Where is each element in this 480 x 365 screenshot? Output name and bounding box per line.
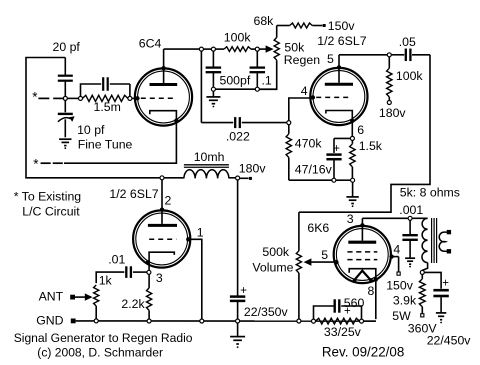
6K6 triangle edge dots	[353, 279, 357, 283]
ground below 1.5k	[352, 182, 354, 196]
node .1 bottom	[255, 87, 259, 91]
6K6 plate pin dot	[360, 223, 364, 227]
capacitor 47/16v electrolytic	[326, 153, 341, 156]
potentiometer 50k regen	[276, 26, 278, 38]
resistor 3.9k 5W	[421, 274, 423, 279]
wire 68k feed	[277, 25, 290, 27]
svg-text:4: 4	[301, 84, 308, 98]
node regen pot wiper feed	[255, 47, 259, 51]
capacitor 500pf	[212, 51, 214, 67]
capacitor 22/350v electrolytic	[230, 295, 245, 298]
svg-text:3: 3	[347, 212, 354, 226]
svg-text:3: 3	[156, 271, 163, 285]
6K6 plate	[348, 241, 376, 244]
node 500pf bottom	[211, 87, 215, 91]
svg-text:*: *	[33, 156, 39, 171]
svg-text:180v: 180v	[379, 106, 407, 120]
svg-text:1/2 6SL7: 1/2 6SL7	[109, 187, 158, 201]
svg-text:8: 8	[368, 284, 375, 298]
tube 6K6 envelope	[334, 226, 391, 283]
svg-text:10 pf: 10 pf	[77, 123, 105, 137]
6SL7a grid entry dot	[311, 95, 315, 99]
6SL7b grid exit dot	[186, 237, 190, 241]
node cathode RC left	[312, 319, 316, 323]
svg-text:22/350v: 22/350v	[244, 305, 289, 319]
svg-text:ANT: ANT	[39, 290, 64, 304]
wire pin6 to 47/16v	[334, 137, 350, 139]
svg-text:.001: .001	[399, 203, 423, 217]
svg-text:* To Existing: * To Existing	[14, 190, 82, 204]
svg-text:6K6: 6K6	[307, 221, 329, 235]
svg-text:+: +	[344, 305, 351, 317]
svg-text:6: 6	[357, 123, 364, 137]
svg-text:150v: 150v	[328, 19, 356, 33]
node plate rail left	[199, 47, 203, 51]
ground below 10pf	[59, 138, 71, 140]
svg-text:2.2k: 2.2k	[121, 297, 145, 311]
wire ground rail	[76, 320, 376, 322]
svg-text:L/C Circuit: L/C Circuit	[22, 205, 80, 219]
wire dashed to existing L/C (top)	[38, 97, 49, 99]
svg-text:GND: GND	[36, 313, 63, 327]
svg-text:3.9k: 3.9k	[393, 294, 417, 308]
node 1.5k bottom	[351, 178, 355, 182]
svg-text:(c) 2008, D. Schmarder: (c) 2008, D. Schmarder	[37, 345, 163, 359]
svg-text:Volume: Volume	[252, 261, 293, 275]
svg-text:1: 1	[197, 225, 204, 239]
6K6 cathode	[349, 269, 376, 319]
svg-text:500k: 500k	[262, 245, 290, 259]
node pin1 bottom	[200, 319, 204, 323]
svg-text:Regen: Regen	[284, 53, 320, 67]
capacitor .1	[256, 51, 258, 67]
node cathode RC right	[360, 319, 364, 323]
wire node C to 6C4 grid	[132, 97, 138, 99]
6K6 cathode triangle	[354, 271, 371, 281]
node 47/16v bottom	[332, 178, 336, 182]
ground below .001	[405, 257, 415, 259]
node cathode/.01 junction	[147, 270, 151, 274]
wiper arrow into 1k	[75, 296, 86, 298]
node 500pf top	[211, 47, 215, 51]
svg-text:.01: .01	[108, 252, 125, 266]
svg-text:+: +	[442, 277, 449, 289]
6K6 screen wire pin4	[392, 256, 399, 258]
transformer T1 primary	[422, 218, 428, 262]
svg-text:22/450v: 22/450v	[427, 334, 472, 348]
wiper arrow into 500k	[311, 261, 336, 263]
speaker terminal top	[447, 230, 451, 234]
6SL7a cathode edge dot	[350, 119, 354, 123]
tube 6SL7a envelope	[310, 68, 367, 125]
node B grid network left	[79, 96, 83, 100]
6C4 grid entry dot	[135, 96, 139, 100]
node C grid node at 6C4	[128, 96, 132, 100]
svg-text:500pf: 500pf	[220, 73, 251, 87]
wire to 22/450v	[424, 272, 441, 288]
wire audio rail right side	[299, 55, 430, 212]
svg-text:Rev. 09/22/08: Rev. 09/22/08	[322, 345, 404, 360]
6C4 cathode	[64, 111, 176, 164]
svg-text:100k: 100k	[224, 30, 252, 44]
svg-text:2: 2	[165, 193, 172, 207]
wire node A to node B	[67, 97, 78, 99]
6SL7a grid dashed line	[316, 96, 351, 98]
6C4 plate	[150, 83, 178, 86]
resistor 100k (plate filter)	[224, 47, 251, 52]
6C4 cathode edge dot	[174, 118, 178, 122]
resistor 100k (dropper)	[388, 57, 390, 68]
svg-text:1.5m: 1.5m	[94, 100, 121, 114]
resistor grid leak 1.5m	[83, 95, 128, 101]
node 2.2k bottom	[147, 319, 151, 323]
6K6 grid entry dot	[334, 260, 338, 264]
wire to 100k	[215, 48, 224, 50]
svg-text:1k: 1k	[99, 274, 113, 288]
node B+ cap bottom	[236, 319, 240, 323]
6SL7b grid dashed line	[149, 238, 176, 240]
svg-text:180v: 180v	[239, 162, 267, 176]
svg-text:470k: 470k	[295, 137, 323, 151]
svg-text:150v: 150v	[386, 279, 414, 293]
capacitor 22/450v electrolytic	[433, 289, 448, 292]
wire 470k bottom rail	[289, 179, 332, 181]
node .05 junction	[387, 53, 391, 57]
terminal 150v screen	[397, 272, 400, 275]
resistor 33-25v cathode	[316, 318, 360, 324]
potentiometer 500k volume	[298, 212, 300, 251]
node B+ input junction	[420, 270, 424, 274]
terminal 150v supply	[323, 24, 326, 27]
6SL7a cathode	[326, 111, 352, 137]
svg-text:5: 5	[327, 52, 334, 66]
terminal 360V input	[421, 314, 424, 317]
svg-text:5k: 8 ohms: 5k: 8 ohms	[400, 186, 460, 200]
6SL7b cathode	[149, 252, 174, 270]
node plate/choke junction	[160, 176, 164, 180]
resistor 1.5k	[351, 140, 353, 143]
wire 10mh left	[164, 177, 184, 179]
transformer T1 core	[431, 218, 433, 263]
6SL7a plate	[325, 83, 353, 86]
node 1k bottom	[94, 319, 98, 323]
node grid junction 6SL7a	[287, 121, 291, 125]
node volume bottom	[297, 319, 301, 323]
wire pin8 elbow	[364, 320, 376, 322]
svg-text:.05: .05	[399, 35, 416, 49]
potentiometer 1k antenna	[94, 285, 99, 306]
svg-text:5: 5	[321, 248, 328, 262]
svg-text:*: *	[32, 90, 38, 105]
wire B+ down to 22/350v	[237, 180, 239, 296]
wire 100k to node	[251, 48, 255, 50]
6K6 screen edge dot	[389, 254, 393, 258]
wire plate node down	[200, 51, 202, 123]
wire 560 left lead	[314, 306, 334, 319]
6C4 plate pin dot	[161, 66, 165, 70]
svg-text:68k: 68k	[254, 14, 275, 28]
6SL7a plate pin dot	[337, 65, 341, 69]
node 180v feed	[236, 176, 240, 180]
speaker terminal bottom	[447, 249, 451, 253]
wire cap ground rail	[215, 88, 255, 90]
svg-text:+: +	[333, 143, 340, 155]
wire dashed cathode return to L/C	[41, 162, 51, 164]
6SL7b cathode edge dot	[146, 260, 150, 264]
transformer T1 secondary	[439, 232, 447, 251]
variable capacitor 10pf fine tune	[64, 100, 66, 112]
capacitor .022	[234, 117, 236, 128]
svg-text:6C4: 6C4	[139, 37, 162, 51]
svg-text:.1: .1	[262, 73, 272, 87]
node pin6 cathode	[350, 136, 354, 140]
wire tank top-left L (20pf top to lower run)	[26, 58, 160, 178]
node .001 top	[408, 216, 412, 220]
capacitor 560-bypass right lead	[341, 306, 361, 319]
wire primary bottom	[422, 263, 427, 271]
wire .01 left feed	[96, 272, 124, 283]
capacitor .05	[391, 54, 404, 56]
svg-text:+: +	[240, 285, 247, 297]
wire 6K6 plate to output	[362, 217, 408, 219]
wire 6C4 plate rail	[164, 48, 200, 50]
svg-text:33/25v: 33/25v	[324, 325, 362, 339]
wire choke right	[229, 177, 236, 179]
tube 6C4 envelope	[135, 68, 192, 125]
tube 6SL7b envelope	[133, 210, 190, 267]
ground below 22/450v	[436, 312, 446, 314]
node A grid-tank junction	[63, 96, 67, 100]
ground below 500pf rail	[212, 91, 214, 96]
svg-text:1/2 6SL7: 1/2 6SL7	[317, 34, 366, 48]
wire 68k to 150v terminal	[312, 25, 322, 27]
capacitor .001	[409, 220, 411, 234]
resistor 470k	[288, 125, 290, 134]
wiper arrow into 50k pot	[259, 48, 266, 50]
6SL7b plate	[148, 224, 177, 227]
terminal 180v supply	[249, 177, 252, 180]
svg-text:.022: .022	[226, 129, 250, 143]
wire to 180v terminal	[240, 177, 249, 179]
svg-text:100k: 100k	[396, 69, 424, 83]
6C4 grid dashed line	[141, 97, 176, 99]
svg-text:Signal Generator to Regen Radi: Signal Generator to Regen Radio	[14, 331, 193, 345]
resistor 68k	[290, 23, 313, 28]
wire grid junction to 6SL7a pin4	[289, 98, 311, 121]
inductor 10mh	[184, 170, 229, 179]
capacitor C 20pf	[64, 58, 66, 76]
capacitor grid coupling	[102, 77, 104, 91]
6K6 grid dashed rows	[347, 251, 377, 253]
svg-text:10mh: 10mh	[194, 150, 225, 164]
terminal GND	[71, 319, 76, 324]
capacitor 560 bypass	[334, 299, 336, 312]
terminal ANT	[70, 295, 75, 300]
resistor 2.2k	[148, 274, 150, 288]
svg-text:20 pf: 20 pf	[53, 40, 81, 54]
svg-text:47/16v: 47/16v	[295, 163, 333, 177]
wire grid cap top path	[81, 84, 102, 97]
ground main (below rail)	[237, 323, 239, 336]
capacitor .01	[125, 266, 127, 278]
6K6 pin8 edge dot	[374, 277, 378, 281]
svg-text:4: 4	[393, 243, 400, 257]
svg-text:Fine Tune: Fine Tune	[78, 138, 133, 152]
svg-text:1.5k: 1.5k	[359, 139, 383, 153]
node 180v measure	[387, 101, 391, 105]
wire pin1 down to ground rail	[188, 239, 202, 319]
wire 6SL7a plate rail	[339, 54, 387, 56]
6SL7b plate pin dot	[160, 208, 164, 212]
